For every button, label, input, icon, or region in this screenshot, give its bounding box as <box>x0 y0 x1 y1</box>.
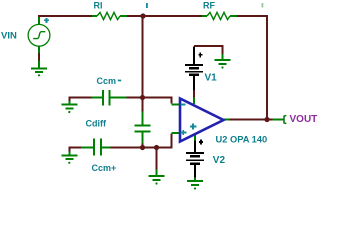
svg-text:V2: V2 <box>213 155 226 166</box>
source VIN <box>28 17 50 53</box>
battery V2 <box>186 141 204 178</box>
VIN plus polarity <box>44 18 49 23</box>
svg-text:V1: V1 <box>205 72 218 83</box>
wire inverting node to op-amp minus input <box>127 98 172 104</box>
junction Cdiff bottom node <box>140 145 145 150</box>
wire Cdiff top <box>142 98 144 112</box>
wire plus-rail ground branch <box>156 148 158 170</box>
wire node 1 to RF <box>143 15 202 17</box>
svg-text:RI: RI <box>94 1 103 11</box>
node tick (current marker) <box>146 3 148 8</box>
ground (V1) <box>215 54 231 64</box>
junction node 1 <box>140 13 145 18</box>
wire V1 bottom to op-amp V+ <box>193 90 195 98</box>
wire V1 top to ground <box>194 46 223 54</box>
ground (plus rail) <box>149 170 165 180</box>
svg-text:Cdiff: Cdiff <box>86 119 107 129</box>
battery V1 <box>185 47 203 91</box>
op-amp U2 <box>180 99 224 142</box>
output pin bracket <box>284 115 286 123</box>
wire op-amp output to VOUT node <box>229 119 267 121</box>
wire Ccm+ to ground corner <box>69 148 81 152</box>
wire RI to node 1 <box>127 15 143 17</box>
wire Ccm- to ground corner <box>69 98 91 102</box>
capacitor Ccm+ <box>81 139 111 156</box>
wire VIN top to RI <box>39 16 92 18</box>
V2 plus polarity <box>199 140 203 145</box>
op-amp plus marker (inner) <box>190 124 197 130</box>
wire VOUT node to output pin <box>267 119 273 121</box>
output pin lead <box>273 119 284 121</box>
resistor RI <box>92 12 127 19</box>
op-amp U2 input leads <box>172 98 230 141</box>
ground (VIN) <box>31 61 47 73</box>
svg-text:VOUT: VOUT <box>290 114 318 125</box>
ground (Ccm-) <box>61 101 77 109</box>
junction plus-rail ground node <box>154 145 159 150</box>
junction VOUT node <box>264 117 269 122</box>
svg-text:Ccm: Ccm <box>97 76 117 86</box>
junction inverting node <box>140 95 145 100</box>
node tick (pale) <box>262 3 264 8</box>
svg-text:RF: RF <box>203 1 215 11</box>
capacitor Ccm- <box>92 90 127 105</box>
svg-text:VIN: VIN <box>1 31 17 42</box>
capacitor Cdiff <box>135 112 151 144</box>
svg-text:U2 OPA 140: U2 OPA 140 <box>216 135 268 145</box>
wire bottom rail to op-amp plus input <box>111 134 172 148</box>
wire node 1 down to inverting node <box>142 16 144 98</box>
ground (Ccm+) <box>61 152 77 160</box>
ground (V2) <box>187 178 203 185</box>
V1 plus polarity <box>198 52 202 57</box>
op-amp plus marker (input) <box>180 130 186 135</box>
wire Cdiff bottom to bottom rail <box>142 143 144 148</box>
svg-text:Ccm+: Ccm+ <box>92 163 117 173</box>
wire VIN bottom to ground <box>38 53 40 61</box>
resistor RF <box>202 12 237 19</box>
op-amp minus marker <box>180 103 185 105</box>
wire RF to VOUT node (right vertical) <box>237 16 267 120</box>
